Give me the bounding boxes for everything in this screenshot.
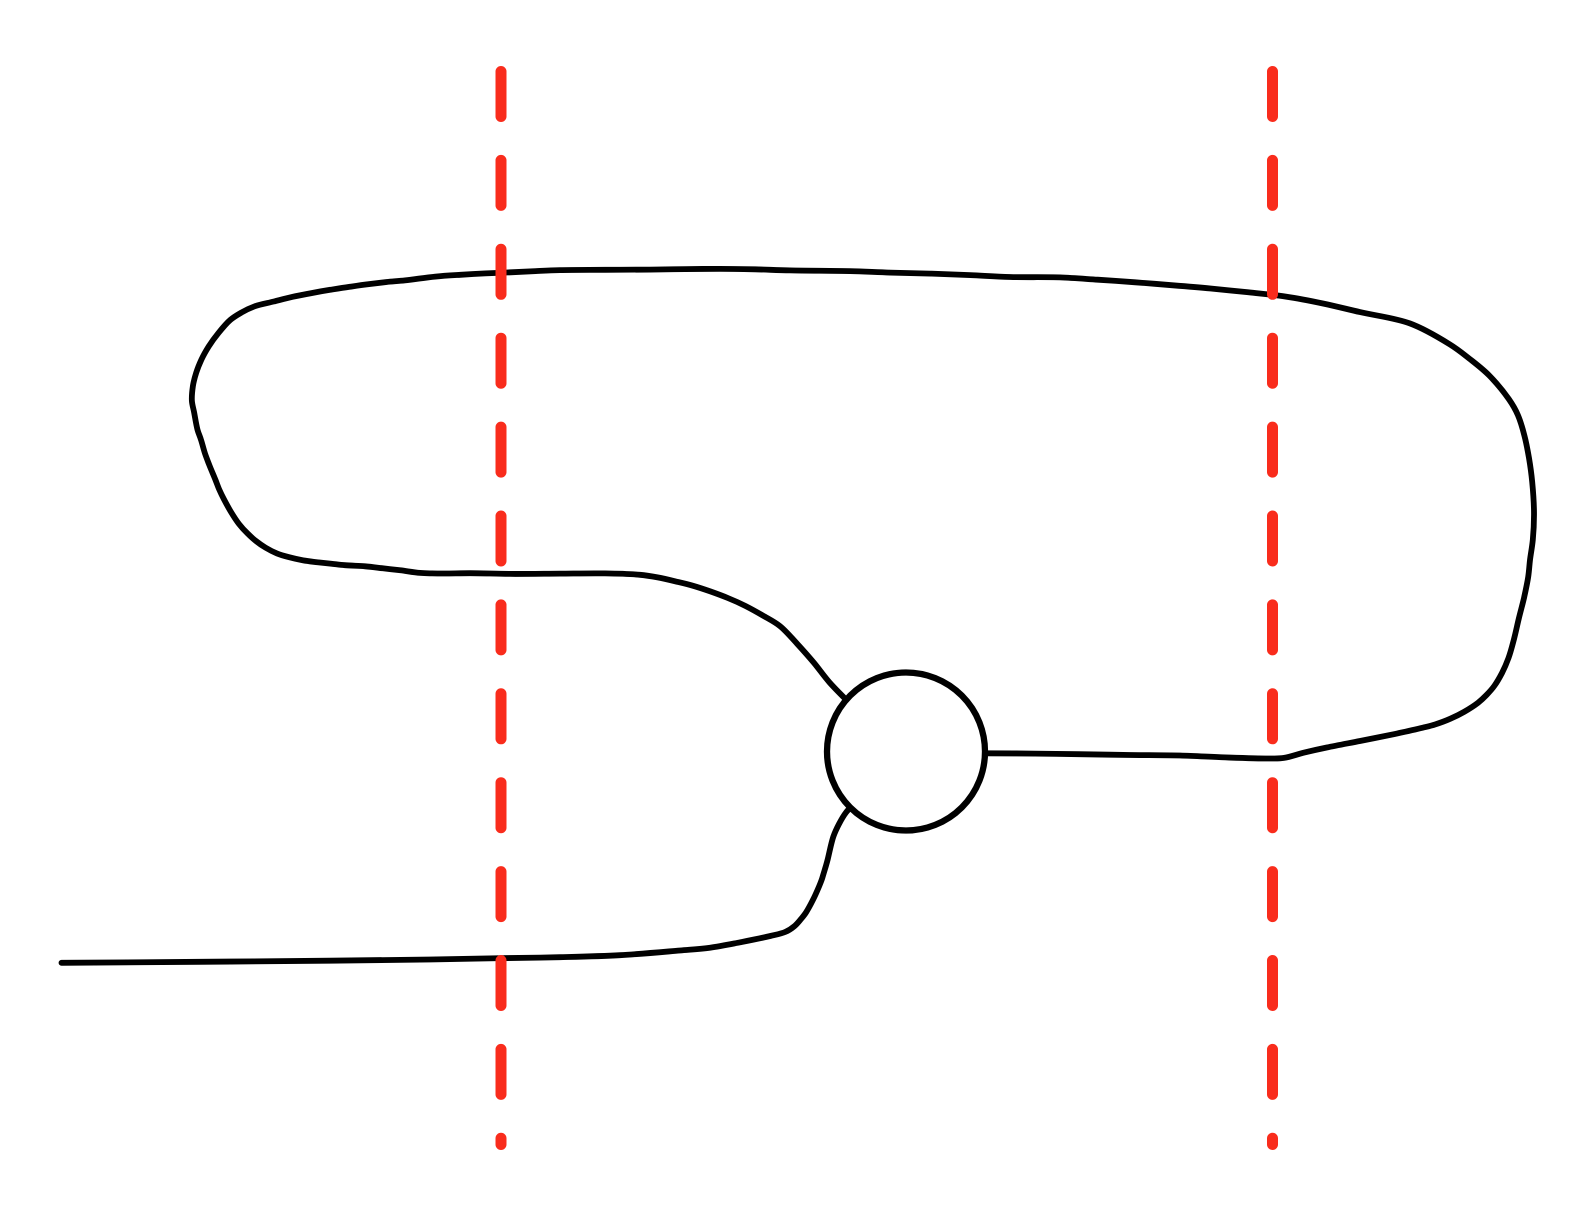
cut line 2 (right red dashed vertical) bbox=[1267, 72, 1278, 1145]
node U1 (circle) bbox=[827, 673, 985, 831]
wire: feedback loop from node U1 upper-left, left along middle run, around left end cap, across top, down right side, back along lower run to U1 right bbox=[192, 269, 1534, 759]
cut line 1 (left red dashed vertical) bbox=[496, 72, 507, 1145]
wire: bottom input line from left edge curving up into node U1 lower-left bbox=[62, 807, 852, 963]
